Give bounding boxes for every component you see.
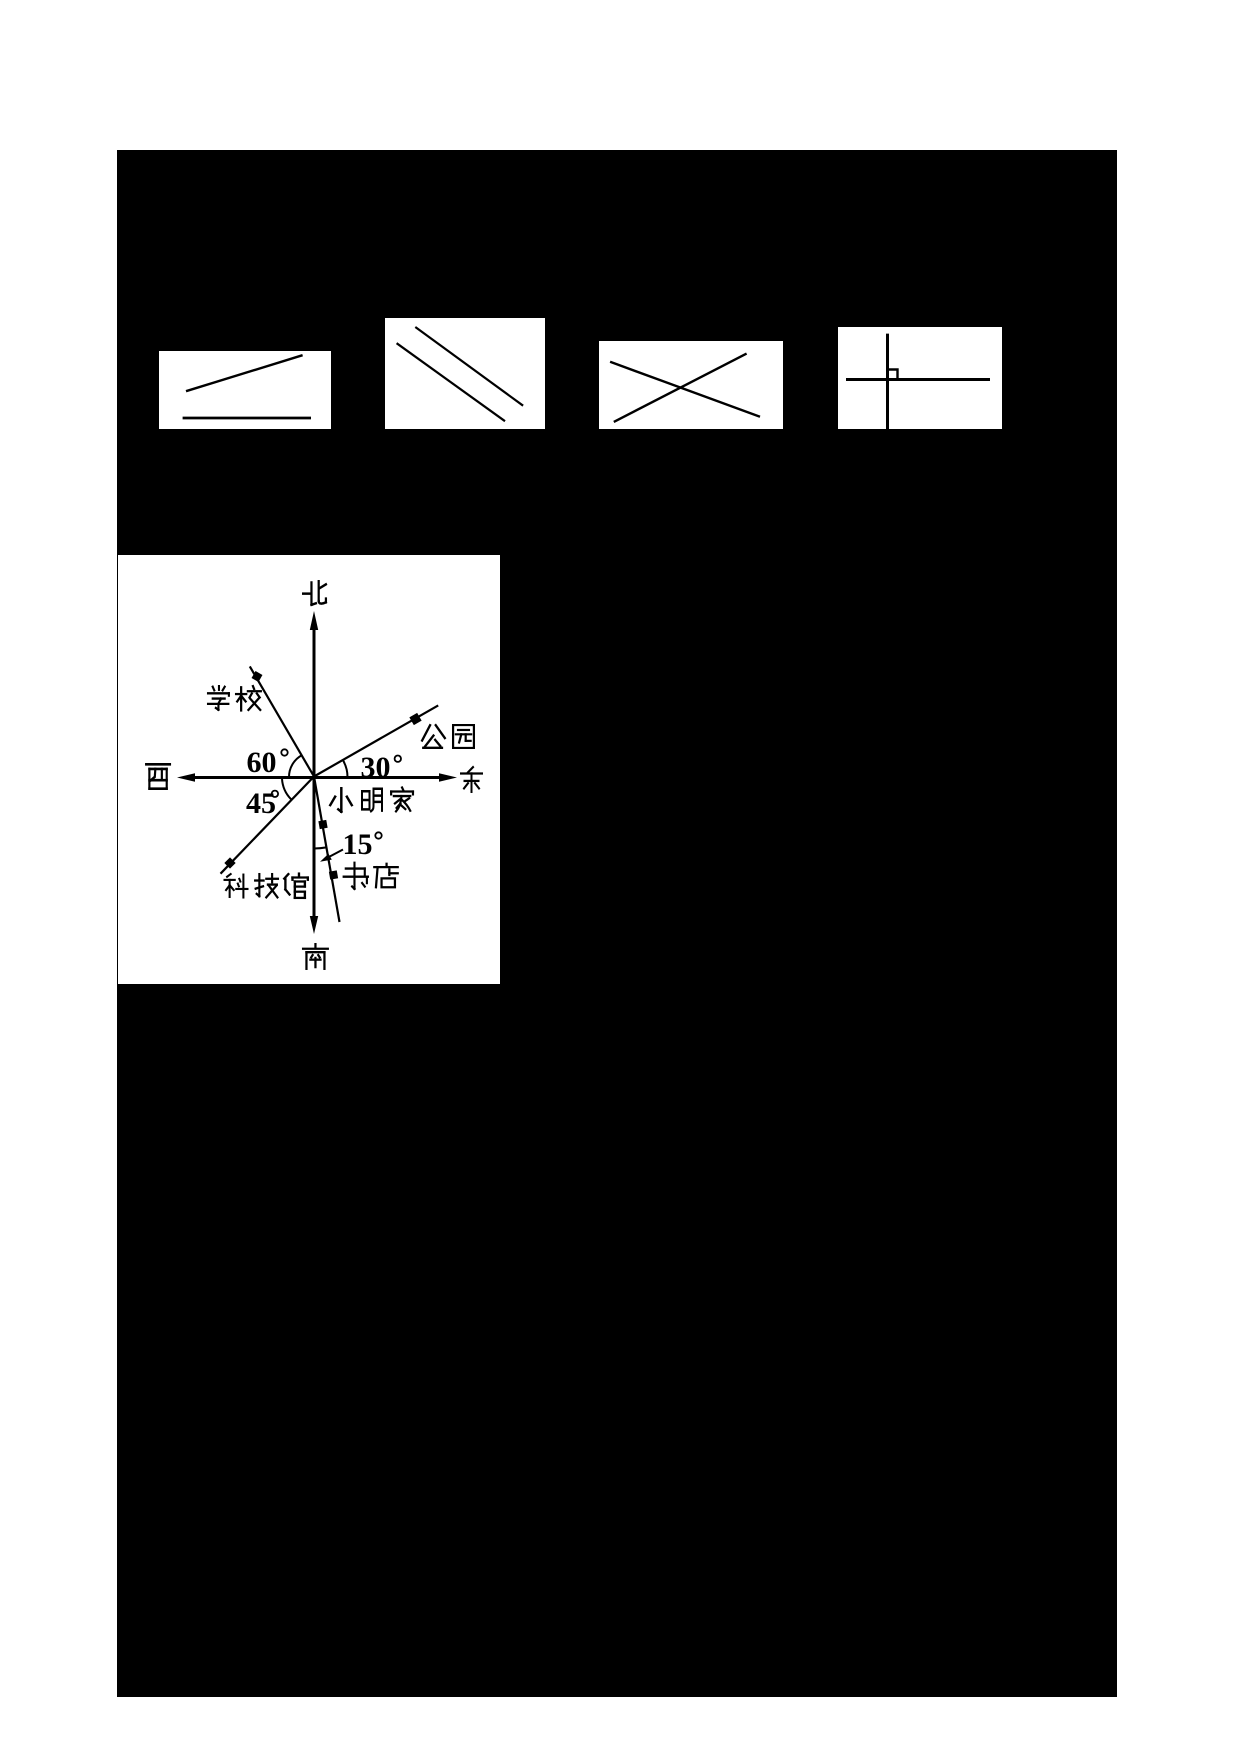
science museum line — [221, 777, 315, 874]
science museum dot — [224, 857, 235, 868]
south axis — [313, 776, 316, 919]
slanted line — [186, 355, 303, 391]
page background — [117, 150, 1117, 1697]
label ShuDian (bookstore) — [344, 863, 368, 889]
15 degree leader arrowhead — [320, 854, 332, 862]
label Xi (west) — [146, 764, 170, 788]
school dot — [252, 671, 263, 682]
right angle mark — [889, 370, 898, 380]
label Bei (north) — [303, 581, 326, 605]
15 degree leader line — [326, 850, 343, 859]
white box 4: perpendicular lines with right-angle mark — [838, 327, 1002, 429]
north axis — [313, 628, 316, 778]
east axis — [314, 776, 440, 779]
label GongYuan (park) — [422, 725, 445, 748]
svg-text:60: 60 — [247, 746, 277, 779]
label Dong (east) — [461, 767, 482, 792]
north arrowhead — [310, 611, 318, 630]
label XueXiao (school) — [208, 686, 229, 710]
degree circle of 30 — [395, 756, 401, 762]
45 degree arc — [282, 779, 291, 800]
bookstore line — [314, 777, 340, 923]
degree circle of 45 — [272, 791, 278, 797]
white box 1: two non-parallel lines — [159, 351, 331, 429]
white box 5: compass direction diagram — [118, 555, 500, 984]
label Nan (south) — [303, 944, 328, 969]
park line — [314, 705, 438, 776]
crossing line A — [610, 362, 760, 417]
parallel line A — [415, 327, 523, 406]
east arrowhead — [439, 773, 457, 781]
30 degree arc — [343, 760, 348, 777]
label KeJiGuan (science museum) — [225, 874, 248, 897]
vertical line — [886, 334, 889, 429]
crossing line B — [614, 354, 747, 422]
park dot — [409, 713, 421, 725]
horizontal line — [846, 378, 990, 381]
degree circle of 15 — [375, 832, 381, 838]
horizontal line — [183, 417, 311, 420]
white box 2: two parallel slanted lines — [385, 318, 545, 429]
west axis — [194, 776, 314, 779]
south arrowhead — [310, 916, 318, 934]
degree circle of 60 — [281, 749, 287, 755]
svg-text:15: 15 — [343, 828, 373, 861]
school line — [250, 666, 314, 776]
white box 3: two crossing lines — [599, 341, 783, 429]
svg-text:30: 30 — [361, 751, 391, 784]
svg-text:45: 45 — [246, 787, 276, 820]
bookstore dot 2 — [329, 870, 338, 879]
60 degree arc — [289, 755, 302, 777]
bookstore dot 1 — [318, 820, 327, 829]
parallel line B — [397, 343, 505, 421]
west arrowhead — [177, 773, 195, 781]
15 degree arc — [314, 847, 326, 848]
label XiaoMingJia (Xiaoming's home) — [330, 788, 352, 812]
